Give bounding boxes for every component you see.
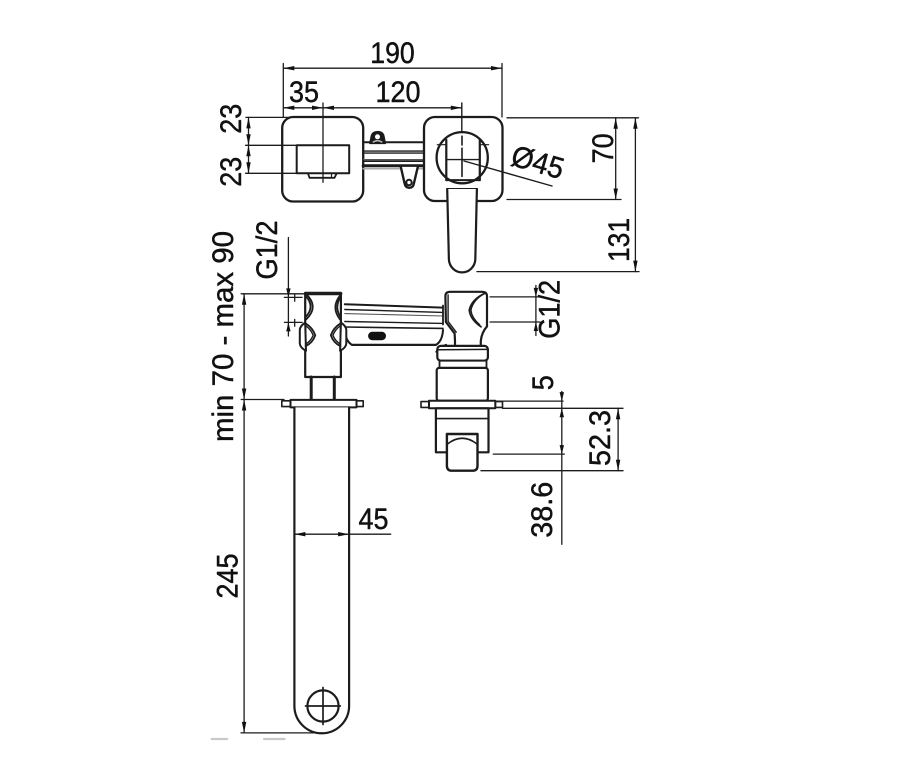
spout outlet rectangle (297, 145, 350, 173)
centerline right plate (461, 103, 463, 131)
valve lower cylinder (436, 408, 489, 452)
svg-text:52.3: 52.3 (584, 410, 617, 466)
svg-text:G1/2: G1/2 (534, 280, 567, 339)
valve collar (437, 346, 488, 368)
handle upper part (437, 140, 488, 189)
spout fitting cone ridge upper left (306, 294, 313, 320)
spout stem (311, 377, 334, 401)
svg-text:35: 35 (289, 76, 319, 109)
handle lever (447, 189, 477, 272)
dim G1/2 right (490, 286, 540, 336)
mounting lug top (370, 132, 385, 144)
valve nut (447, 434, 478, 471)
dim 70 (507, 118, 639, 200)
svg-text:38.6: 38.6 (526, 482, 559, 538)
dim 52.3 (481, 408, 623, 470)
dim 35 / 120 (283, 106, 462, 110)
dim diameter 45 leader (464, 161, 552, 186)
dim G1/2 left (284, 238, 302, 337)
mounting lug bottom (401, 167, 418, 188)
svg-text:min 70 - max 90: min 70 - max 90 (207, 231, 240, 442)
valve elbow fitting (445, 292, 487, 347)
in-wall body pipe (front view) (363, 142, 433, 169)
svg-text:120: 120 (376, 76, 421, 109)
svg-text:245: 245 (212, 554, 245, 599)
wall plate left (spout escutcheon) (282, 117, 363, 202)
valve body cylinder (437, 368, 488, 401)
svg-text:G1/2: G1/2 (251, 221, 284, 280)
dim 190 (283, 64, 502, 118)
dim 245 (241, 400, 318, 733)
wall flange right (421, 401, 503, 409)
side pipe (in-wall body side view) (345, 304, 446, 352)
svg-text:70: 70 (587, 133, 620, 163)
svg-text:190: 190 (370, 37, 415, 70)
dim 23 / 23 (246, 117, 297, 173)
dim min70-max90 (241, 294, 304, 400)
svg-text:23: 23 (215, 157, 248, 187)
handle cross line (446, 159, 480, 161)
svg-text:45: 45 (359, 503, 389, 536)
spout fitting cone ridge upper right (335, 295, 340, 320)
handle centerline (461, 136, 463, 176)
spout fitting cone ridge lower left (300, 323, 316, 351)
spout lip (308, 173, 337, 178)
svg-text:131: 131 (603, 218, 636, 262)
spout union fitting body (305, 293, 341, 377)
handle rosette circle (437, 132, 488, 183)
svg-text:5: 5 (527, 375, 560, 390)
centerline left plate (322, 103, 324, 182)
wall flange left (282, 400, 363, 408)
dim 131 (477, 118, 639, 272)
wall plate right (mixer escutcheon) (424, 117, 503, 201)
dim 45 (294, 532, 390, 536)
dim 5 and 38.6 (493, 392, 564, 545)
slot on side pipe (368, 332, 386, 340)
spout fitting cone ridge lower right (331, 323, 347, 351)
svg-text:23: 23 (215, 104, 248, 134)
watermark remnants (212, 738, 285, 740)
spout tube (294, 407, 349, 733)
aerator (306, 688, 341, 725)
